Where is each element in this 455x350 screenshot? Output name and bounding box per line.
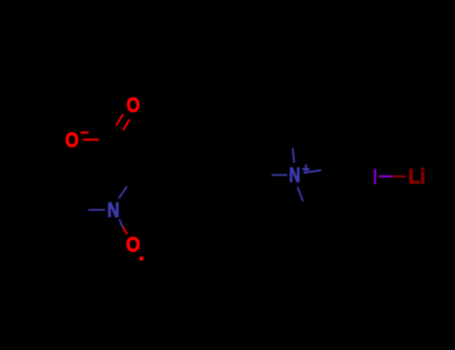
svg-text:N: N [289,163,300,187]
N-O bond (N half) [119,219,123,227]
carboxylate C=O double bond (O half, line 2) [123,119,130,130]
N-O bond (O half) [123,227,127,234]
bond N to left methyl (N half) [88,209,105,211]
svg-text:O: O [126,93,140,117]
iodide I [374,169,376,184]
bond N+ to upper methyl (N half) [293,148,295,163]
plus charge [302,164,309,172]
svg-text:N: N [107,198,119,222]
bond N to ring carbon up-right (N half) [119,186,127,198]
carboxylate C-O single bond (O half) [83,139,99,141]
svg-text:O: O [65,128,79,152]
carboxylate C=O double bond (O half, line 1) [116,114,123,126]
bond N+ to lower methyl (N half) [298,187,304,201]
minus charge on carboxylate O [81,132,89,134]
I-Li bond (I half) [379,175,393,177]
bond chain to N+ (N half) [272,174,288,176]
radical dot on O [139,257,143,261]
I-Li bond (Li half) [393,175,406,177]
svg-text:O: O [126,232,140,256]
bond N+ to right methyl (N half) [303,170,321,173]
svg-text:Li: Li [408,164,425,188]
